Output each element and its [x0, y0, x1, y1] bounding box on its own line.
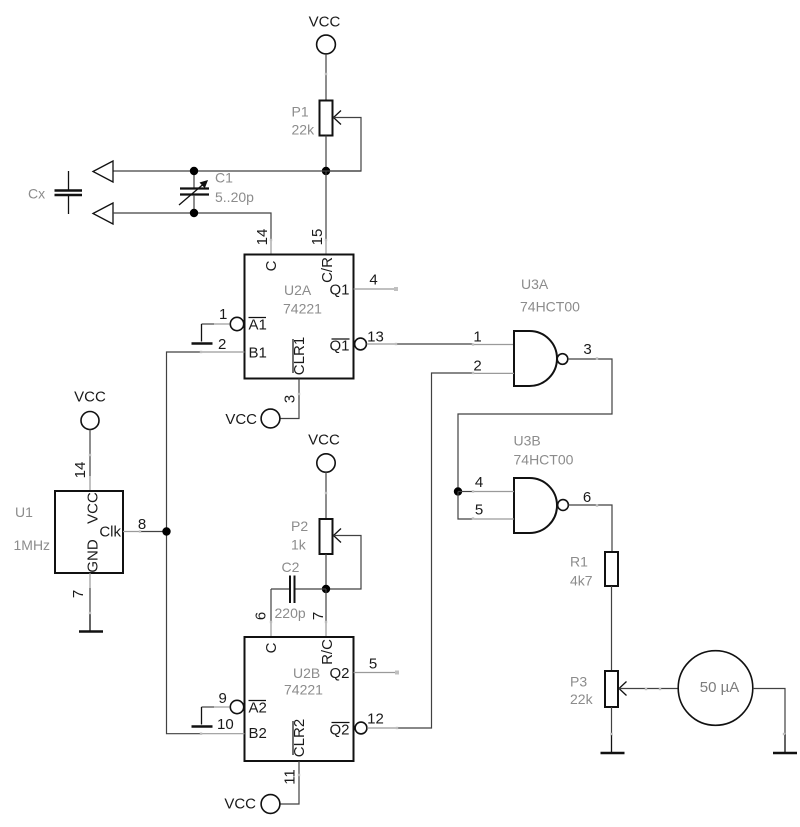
ground below P3: [601, 734, 625, 753]
svg-text:R/C: R/C: [319, 639, 336, 665]
P3 labels: [570, 674, 594, 708]
wire B1 stub: [201, 351, 245, 353]
wire U3B input4: [458, 491, 514, 493]
svg-text:VCC: VCC: [308, 432, 340, 449]
svg-text:74221: 74221: [284, 682, 323, 698]
nand gate U3B body: [514, 478, 557, 533]
capacitor C1 trimmer: [179, 171, 209, 213]
P2 labels: [291, 518, 308, 553]
svg-text:22k: 22k: [570, 691, 594, 707]
node junction C1 top: [190, 167, 198, 175]
wire pin12 stub: [367, 727, 397, 729]
svg-text:50 µA: 50 µA: [700, 679, 740, 696]
svg-text:4: 4: [369, 272, 377, 289]
ground below U1: [79, 613, 103, 632]
wire Clk to trunk: [123, 531, 140, 533]
ground tie A2 (low level symbol): [192, 707, 230, 727]
svg-text:2: 2: [218, 336, 226, 353]
svg-text:74221: 74221: [283, 301, 322, 317]
node junction C1 bottom: [190, 209, 198, 217]
U3B output bubble: [558, 500, 569, 511]
wire P3 wiper to meter: [619, 688, 678, 690]
U2B pin label Q2bar: [329, 722, 349, 739]
svg-text:11: 11: [282, 769, 299, 785]
power VCC above U1: [74, 389, 106, 430]
svg-text:10: 10: [217, 716, 234, 733]
oscillator U1 body box: [55, 491, 123, 573]
svg-text:1k: 1k: [291, 537, 307, 553]
svg-text:A1: A1: [249, 317, 267, 334]
wire pin13 to U3A pin1: [367, 343, 514, 346]
U2A pin label A1bar (pin1): [249, 317, 267, 334]
svg-text:13: 13: [367, 329, 384, 346]
pin number 4 and stub: [354, 272, 399, 292]
svg-text:Q1: Q1: [329, 282, 349, 299]
wire R1 to P3: [611, 586, 613, 671]
P3 wiper arrow: [619, 682, 627, 696]
power VCC at CLR2: [224, 795, 280, 814]
wire C2 left to pin6: [270, 589, 272, 622]
svg-text:P3: P3: [570, 674, 587, 690]
U2B pin label A2bar: [249, 700, 267, 717]
wire trunk from clk to B1: [167, 352, 202, 734]
U3A name/value: [520, 276, 580, 315]
wire VCC to U1 pin14: [89, 430, 91, 477]
wire U3A output feedback to U3B inputs: [458, 359, 612, 492]
svg-text:C: C: [263, 642, 280, 653]
svg-text:2: 2: [473, 358, 481, 375]
svg-text:22k: 22k: [292, 122, 316, 138]
svg-text:3: 3: [282, 395, 299, 403]
svg-text:12: 12: [367, 711, 384, 728]
svg-text:Cx: Cx: [28, 186, 45, 202]
wire U3B output to R1: [568, 505, 612, 552]
wire junction to pin7 R/C: [325, 589, 327, 622]
svg-text:5: 5: [475, 502, 483, 519]
svg-text:4: 4: [475, 474, 483, 491]
pin number 5 (U2B Q2) and stub: [354, 656, 400, 675]
svg-text:U1: U1: [15, 504, 33, 520]
U2A pin label CLR1bar (pin3): [291, 337, 308, 375]
svg-text:C: C: [263, 260, 280, 271]
capacitor C2: [271, 576, 326, 604]
potentiometer P1 body: [320, 101, 333, 136]
wire P1 wiper return: [326, 118, 361, 172]
svg-text:5..20p: 5..20p: [215, 189, 254, 205]
svg-text:1: 1: [473, 329, 481, 346]
wire P2 bottom lead: [325, 554, 327, 589]
svg-text:Clk: Clk: [99, 524, 121, 541]
svg-text:Q1: Q1: [329, 338, 349, 355]
svg-text:B1: B1: [249, 345, 267, 362]
U3B name/value: [514, 433, 574, 468]
meter M1 50uA: [678, 651, 753, 726]
svg-text:VCC: VCC: [225, 411, 257, 428]
svg-text:VCC: VCC: [309, 14, 341, 31]
op-amp U2B body box: [245, 637, 354, 761]
probe lower (test terminal): [93, 203, 113, 224]
wire B2 stub: [201, 733, 245, 735]
pin 13 bubble Q1bar: [355, 338, 367, 350]
svg-text:14: 14: [254, 229, 271, 246]
resistor R1: [605, 552, 618, 586]
svg-text:6: 6: [253, 612, 270, 620]
pin 9 bubble A2: [230, 700, 243, 713]
svg-text:C/R: C/R: [319, 257, 336, 283]
svg-text:220p: 220p: [275, 605, 306, 621]
P1 wiper arrow: [334, 111, 342, 125]
svg-text:A2: A2: [249, 700, 267, 717]
svg-text:1: 1: [219, 306, 227, 323]
P1 name/value labels: [292, 104, 316, 138]
wire VCC to P1 top: [325, 54, 327, 101]
svg-text:GND: GND: [85, 539, 102, 573]
svg-text:Q2: Q2: [329, 665, 349, 682]
svg-text:U2A: U2A: [284, 282, 312, 298]
wire net upper probe rail y=171: [113, 170, 361, 172]
wire U1 GND down: [89, 573, 91, 588]
wire VCC to P2 top: [325, 472, 327, 519]
ground right of meter: [773, 734, 797, 753]
potentiometer P3 body: [605, 671, 618, 707]
svg-text:U3A: U3A: [521, 276, 549, 292]
svg-text:C1: C1: [215, 170, 233, 186]
potentiometer P2 body: [320, 519, 333, 554]
svg-text:C2: C2: [282, 559, 300, 575]
svg-text:74HCT00: 74HCT00: [520, 299, 580, 315]
wire P2 wiper return: [326, 536, 361, 590]
capacitor Cx (device under test): [28, 171, 82, 214]
probe upper (test terminal): [93, 161, 113, 182]
U2A name/value: [283, 282, 322, 317]
svg-text:7: 7: [70, 590, 87, 598]
svg-text:7: 7: [310, 612, 327, 620]
svg-text:VCC: VCC: [224, 796, 256, 813]
wire meter right to ground: [753, 689, 785, 737]
power VCC above P2: [308, 432, 340, 473]
op-amp U2A body box: [245, 255, 354, 379]
svg-text:R1: R1: [570, 554, 588, 570]
wire U3A input2 from Q2bar trunk: [397, 373, 514, 728]
U2B pin label CLR2bar: [291, 719, 308, 757]
nand gate U3A body: [514, 331, 557, 386]
wire P1 bottom lead: [325, 136, 327, 172]
power VCC (top, feeds P1): [309, 14, 341, 54]
wire P3 bottom to ground: [611, 707, 613, 736]
power VCC at CLR1: [225, 409, 280, 428]
C1 labels: [215, 170, 254, 206]
U1 name/value: [14, 504, 51, 553]
P2 wiper arrow: [334, 529, 342, 543]
U3A output bubble: [557, 354, 568, 365]
wire lower probe rail y=213 to pin14: [113, 213, 271, 240]
C2 labels: [275, 559, 306, 621]
svg-text:3: 3: [583, 341, 591, 358]
node junction P2/C2/RC: [322, 585, 330, 593]
svg-text:6: 6: [583, 489, 591, 506]
U2A pin label Q1bar (pin13): [329, 338, 349, 355]
U2B name/value: [284, 665, 323, 698]
R1 labels: [570, 554, 593, 589]
svg-text:14: 14: [72, 462, 89, 479]
svg-text:5: 5: [369, 656, 377, 673]
svg-text:9: 9: [219, 690, 227, 707]
pin number 11 and CLR2 wire: [280, 761, 300, 804]
svg-text:P2: P2: [291, 518, 308, 534]
wire junction ticks: [89, 73, 785, 776]
svg-text:VCC: VCC: [74, 389, 106, 406]
svg-text:15: 15: [309, 229, 326, 246]
svg-text:U3B: U3B: [514, 433, 541, 449]
svg-text:4k7: 4k7: [570, 573, 593, 589]
wire U3B input5: [458, 492, 514, 520]
ground tie A1 (low level symbol): [192, 324, 230, 344]
svg-text:1MHz: 1MHz: [14, 537, 51, 553]
pin number 3 and CLR1 wire: [280, 379, 300, 419]
svg-text:B2: B2: [249, 725, 267, 742]
svg-text:U2B: U2B: [293, 665, 320, 681]
pin 1 bubble A1: [230, 317, 243, 330]
node junction P1/C/R net: [322, 167, 330, 175]
svg-text:VCC: VCC: [85, 492, 102, 524]
svg-text:Q2: Q2: [329, 722, 349, 739]
node junction U3B inputs: [454, 487, 462, 495]
svg-text:74HCT00: 74HCT00: [514, 452, 574, 468]
node junction clk/trunk: [162, 527, 170, 535]
pin 12 bubble Q2bar: [355, 722, 367, 734]
svg-text:P1: P1: [292, 104, 309, 120]
wire C/R pin 15 vertical: [325, 171, 327, 240]
